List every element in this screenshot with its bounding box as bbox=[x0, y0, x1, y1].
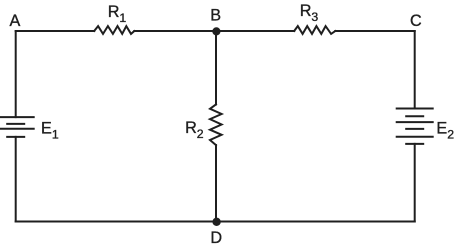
battery E1 long plate bbox=[0, 128, 34, 130]
svg-text:D: D bbox=[210, 229, 222, 245]
wire E2 down to bottom rail bbox=[414, 144, 416, 222]
battery E2 short plate 3 bbox=[406, 143, 423, 145]
svg-text:B: B bbox=[210, 7, 221, 25]
svg-text:C: C bbox=[410, 12, 422, 30]
battery E1 long plate (top) bbox=[0, 116, 34, 118]
resistor R3 bbox=[294, 26, 335, 34]
wire right rail: node C down to battery E2 bbox=[414, 31, 416, 109]
battery E2 short plate 2 bbox=[406, 128, 423, 130]
resistor R2 bbox=[210, 104, 222, 145]
wire top rail: node A corner to R1 bbox=[16, 30, 95, 32]
node B junction dot bbox=[212, 27, 220, 35]
svg-text:A: A bbox=[10, 12, 21, 30]
svg-text:R2: R2 bbox=[185, 119, 204, 141]
battery E2 short plate 1 bbox=[406, 115, 423, 117]
wire bottom rail bbox=[16, 221, 415, 223]
wire R2 down to node D bbox=[215, 145, 217, 221]
wire left rail: node A down to battery E1 bbox=[15, 31, 17, 117]
wire R1 to node B bbox=[134, 30, 216, 32]
svg-text:R1: R1 bbox=[108, 3, 127, 25]
svg-text:E2: E2 bbox=[436, 120, 454, 142]
svg-text:E1: E1 bbox=[41, 119, 59, 141]
resistor R1 bbox=[94, 26, 134, 34]
node D junction dot bbox=[212, 218, 220, 226]
battery E2 long plate 3 bbox=[397, 136, 433, 138]
wire node B to R3 bbox=[216, 30, 294, 32]
wire R3 to node C corner bbox=[335, 30, 414, 32]
battery E2 long plate 1 bbox=[397, 108, 433, 110]
battery E1 short plate (bottom) bbox=[7, 136, 24, 138]
wire E1 down to bottom rail bbox=[15, 137, 17, 222]
battery E2 long plate 2 bbox=[397, 121, 433, 123]
svg-text:R3: R3 bbox=[300, 2, 319, 24]
wire node B down to R2 bbox=[215, 31, 217, 104]
battery E1 short plate bbox=[7, 123, 24, 125]
